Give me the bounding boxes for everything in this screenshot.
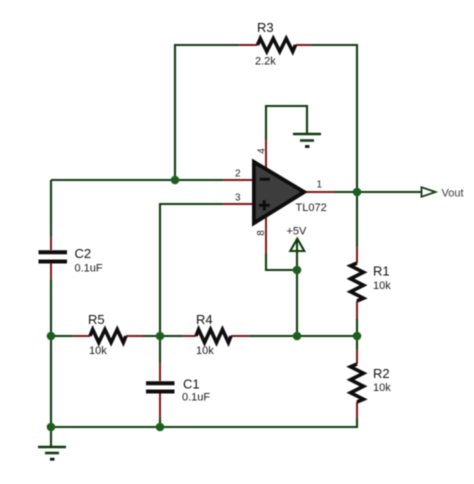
svg-text:10k: 10k	[89, 345, 107, 357]
pin number 2	[235, 169, 241, 180]
pin number 1	[317, 180, 323, 191]
label R2 value 10k	[373, 382, 391, 394]
label R2	[373, 366, 390, 381]
junction mid-right node (R1/R2)	[353, 332, 362, 341]
svg-text:+5V: +5V	[287, 226, 308, 238]
label R5 value 10k	[89, 345, 107, 357]
svg-text:3: 3	[235, 193, 241, 204]
svg-text:R5: R5	[88, 312, 105, 327]
junction left mid node	[47, 332, 56, 341]
ground (bottom left)	[38, 427, 66, 459]
wire output node to Vout arrow	[334, 191, 421, 193]
junction output node	[353, 188, 362, 197]
junction bottom left node	[47, 423, 56, 432]
label C1 value 0.1uF	[182, 392, 210, 404]
label R1	[373, 264, 390, 279]
Vout output arrow	[422, 187, 436, 197]
wire R1 bottom to R2 top through mid-right node	[356, 318, 358, 350]
junction mid row +5V column	[293, 332, 302, 341]
wire op-amp pin 4 up to ground	[266, 106, 307, 140]
label R4 value 10k	[196, 345, 214, 357]
svg-text:C1: C1	[183, 377, 200, 392]
svg-text:0.1uF: 0.1uF	[182, 392, 210, 404]
junction node A (feedback / pin 2)	[171, 176, 180, 185]
label R3	[257, 20, 274, 35]
wire node A down to C2 top	[50, 180, 52, 237]
svg-text:TL072: TL072	[296, 202, 327, 214]
junction mid node (C1 top)	[156, 332, 165, 341]
svg-text:R4: R4	[196, 312, 213, 327]
label C2 value 0.1uF	[75, 263, 103, 275]
label R1 value 10k	[373, 280, 391, 292]
capacitor C1 0.1uF	[146, 363, 175, 419]
svg-text:2: 2	[235, 169, 241, 180]
resistor R3 2.2k horizontal	[239, 39, 312, 52]
label TL072	[296, 202, 327, 214]
label +5V	[287, 226, 308, 238]
op-amp U1 TL072	[223, 140, 334, 253]
svg-text:2.2k: 2.2k	[255, 56, 276, 68]
wire R5 right pin to R4 left pin	[142, 335, 183, 337]
label C1	[183, 377, 200, 392]
svg-text:10k: 10k	[373, 280, 391, 292]
svg-text:R3: R3	[257, 20, 274, 35]
wire left node to R5 left pin	[51, 335, 73, 337]
svg-text:4: 4	[257, 148, 268, 154]
wire mid node down to C1 top	[159, 336, 161, 363]
resistor R1 10k vertical	[351, 247, 364, 318]
svg-text:C2: C2	[75, 246, 92, 261]
wire +5V stem down to mid row	[296, 240, 298, 336]
wire op-amp pin 8 to +5V node	[266, 253, 297, 270]
ground (top, op-amp pin 4)	[293, 134, 321, 147]
svg-text:0.1uF: 0.1uF	[75, 263, 103, 275]
pin number 8	[256, 230, 267, 236]
label R3 value 2.2k	[255, 56, 276, 68]
label R5	[88, 312, 105, 327]
wire R4 right pin to right rail mid node	[249, 335, 357, 337]
svg-text:10k: 10k	[373, 382, 391, 394]
pin number 3	[235, 193, 241, 204]
svg-text:8: 8	[256, 230, 267, 236]
wire node A row to op-amp pin 2	[51, 179, 223, 181]
resistor R2 10k vertical	[351, 350, 364, 418]
svg-text:Vout: Vout	[442, 188, 464, 200]
svg-text:10k: 10k	[196, 345, 214, 357]
capacitor C2 0.1uF	[39, 237, 68, 279]
resistor R5 10k horizontal	[73, 330, 142, 343]
wire from R3 right pin down right rail to output node	[312, 45, 358, 192]
svg-text:R2: R2	[373, 366, 390, 381]
svg-text:R1: R1	[373, 264, 390, 279]
label Vout	[442, 188, 464, 200]
label C2	[75, 246, 92, 261]
wire C2 bottom down through mid node to bottom node	[50, 279, 52, 427]
wire from node A up and right to R3 left pin	[175, 45, 239, 180]
power +5V symbol	[290, 239, 304, 251]
wire C1 bottom to bottom rail	[159, 419, 161, 428]
wire bottom rail	[51, 418, 357, 427]
svg-text:1: 1	[317, 180, 323, 191]
junction +5V node	[293, 266, 302, 275]
label R4	[196, 312, 213, 327]
pin number 4	[257, 148, 268, 154]
wire op-amp pin 3 left and down to mid row	[160, 204, 223, 336]
wire output node down to R1 top pin	[356, 192, 358, 247]
resistor R4 10k horizontal	[183, 330, 249, 343]
junction bottom C1 node	[156, 423, 165, 432]
